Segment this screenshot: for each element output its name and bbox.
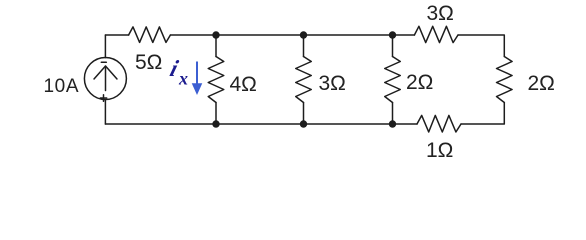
ix current arrow [193,62,202,94]
wire top rail middle segment [170,34,414,36]
resistor R5 3ohm top [414,26,458,42]
wire left branch top [104,35,106,58]
svg-text:2Ω: 2Ω [528,72,555,95]
resistor R1 5ohm [129,27,171,43]
wire 4ohm branch top [215,35,217,57]
wire top rail left segment [105,34,128,36]
node dot top 3 [389,31,396,38]
wire top right corner [458,35,504,57]
svg-text:10A: 10A [44,76,80,97]
svg-text:4Ω: 4Ω [230,73,257,96]
node dot top 2 [300,31,307,38]
node dot bottom 3 [389,120,396,127]
wire 2ohm branch bottom [392,103,394,125]
svg-text:3Ω: 3Ω [319,72,346,95]
resistor R4 2ohm vertical [385,57,401,103]
wire bottom right corner [461,103,504,125]
current source arrow shaft [105,66,107,91]
wire 4ohm branch bottom [215,103,217,125]
node dot top 1 [212,31,219,38]
wire 3ohm branch bottom [303,103,305,125]
wire bottom rail [105,123,417,125]
wire 3ohm branch top [303,35,305,57]
current source plus mark [100,97,106,99]
svg-text:3Ω: 3Ω [427,2,454,25]
node dot bottom 2 [300,120,307,127]
resistor R2 4ohm [208,57,224,103]
current source arrow head [94,66,117,79]
resistor R7 2ohm right [497,57,513,103]
resistor R6 1ohm [417,115,461,132]
current source I1 circle [84,58,126,100]
svg-text:5Ω: 5Ω [135,51,162,74]
resistor R3 3ohm vertical [296,57,312,103]
svg-text:2Ω: 2Ω [406,71,433,94]
wire 2ohm branch top [392,35,394,57]
current source minus mark [101,61,106,63]
svg-text:x: x [178,69,188,89]
svg-text:1Ω: 1Ω [426,139,453,162]
wire left branch bottom [104,100,106,124]
node dot bottom 1 [212,120,219,127]
